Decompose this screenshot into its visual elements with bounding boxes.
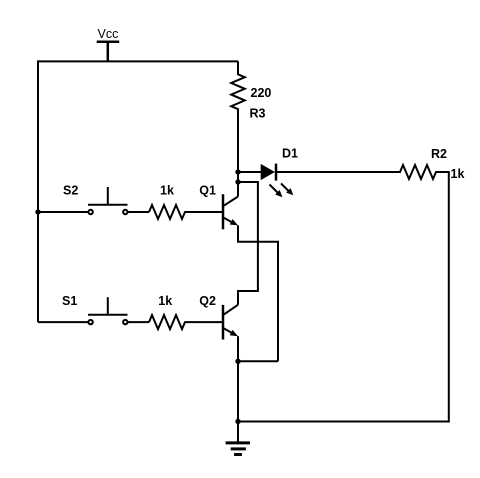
svg-text:S2: S2 bbox=[63, 183, 78, 197]
svg-text:Q1: Q1 bbox=[199, 183, 216, 197]
svg-text:Vcc: Vcc bbox=[98, 27, 119, 41]
svg-text:1k: 1k bbox=[160, 183, 174, 197]
svg-text:R3: R3 bbox=[250, 106, 266, 120]
svg-text:D1: D1 bbox=[282, 147, 298, 161]
svg-text:Q2: Q2 bbox=[199, 294, 216, 308]
svg-text:220: 220 bbox=[251, 86, 272, 100]
svg-text:R2: R2 bbox=[431, 147, 447, 161]
svg-text:1k: 1k bbox=[451, 167, 465, 181]
svg-text:1k: 1k bbox=[158, 294, 172, 308]
svg-text:S1: S1 bbox=[62, 294, 77, 308]
